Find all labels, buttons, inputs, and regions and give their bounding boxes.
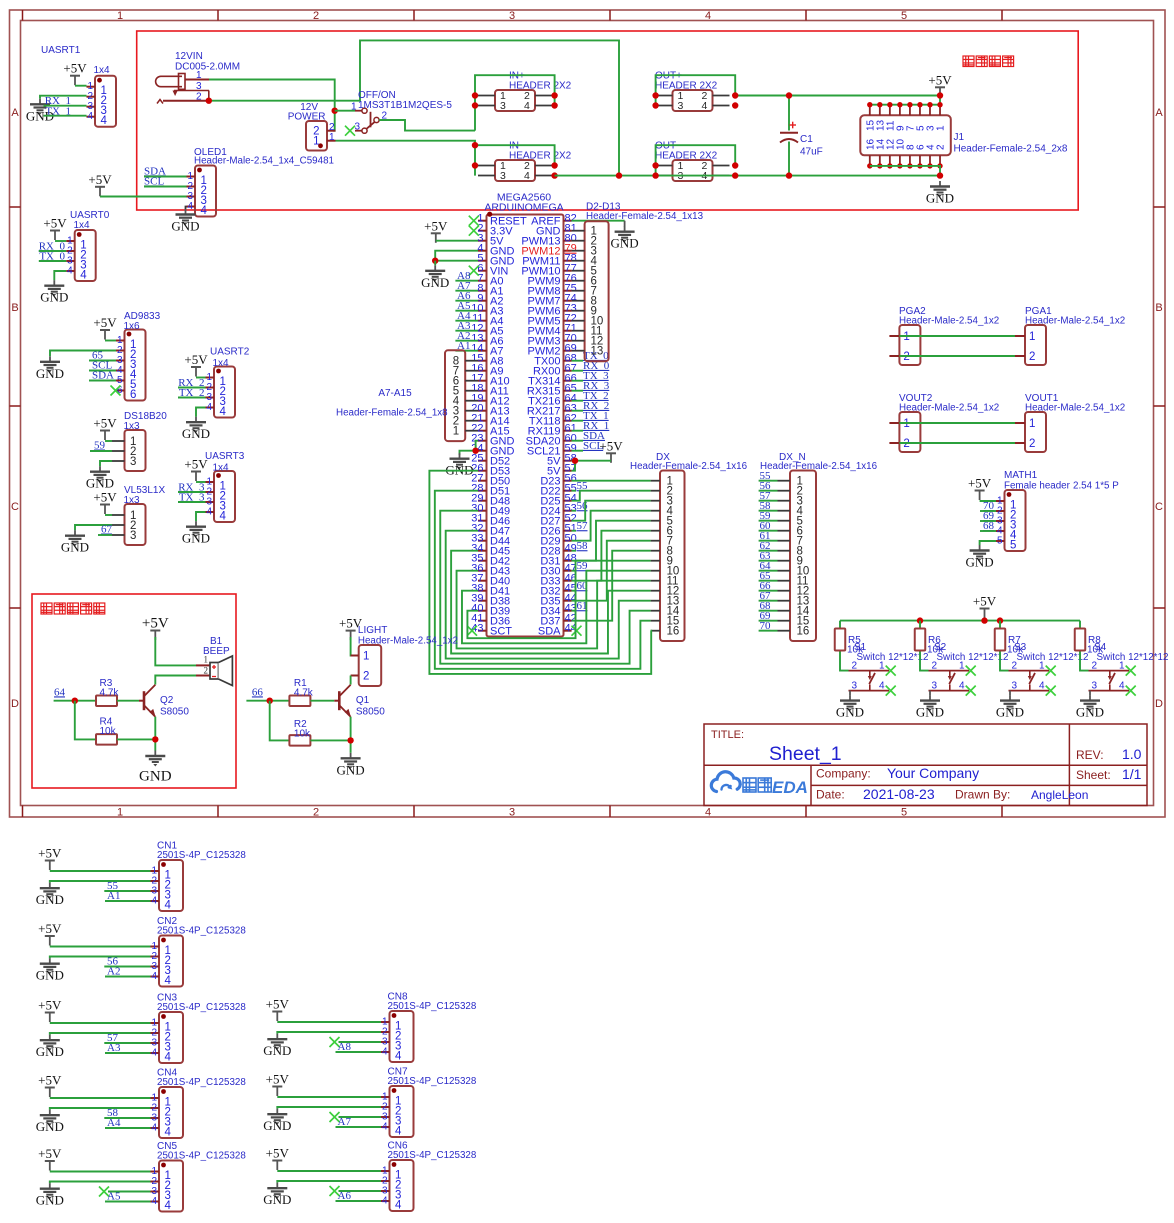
wire net A1 stub <box>455 350 478 352</box>
capacitor C1 47uF <box>780 96 798 176</box>
svg-text:GND: GND <box>263 1043 291 1058</box>
svg-text:2: 2 <box>196 92 202 103</box>
ground (CN3) <box>36 1035 64 1060</box>
wire net 62 to DX_N pin8 <box>759 550 778 552</box>
svg-text:5: 5 <box>997 536 1003 547</box>
wire +5V to CN8 pin1 <box>277 1021 381 1023</box>
wire 59 to DS18B20 pin2 <box>90 450 112 452</box>
connector UASRT2 1x4 <box>206 367 236 419</box>
wire CN7 pin3 stub <box>339 1116 382 1118</box>
svg-text:GND: GND <box>40 290 68 305</box>
svg-text:TITLE:: TITLE: <box>711 729 744 741</box>
svg-text:2501S-4P_C125328: 2501S-4P_C125328 <box>157 1151 246 1162</box>
wire D2x staircase to DX2 <box>572 491 651 501</box>
svg-text:Header-Male-2.54_1x2: Header-Male-2.54_1x2 <box>358 636 458 647</box>
svg-text:1: 1 <box>117 10 123 22</box>
junction base node (buzzer) <box>72 698 78 704</box>
svg-text:Header-Female-2.54_1x16: Header-Female-2.54_1x16 <box>760 461 878 472</box>
wire A1 to CN1 pin4 <box>105 900 151 902</box>
+5V flag (VL53L1X) <box>93 490 117 515</box>
wire MATH1 pin5 to GND <box>980 541 996 545</box>
svg-text:Drawn By:: Drawn By: <box>955 788 1010 802</box>
switch S4 body <box>1089 671 1130 691</box>
wire net 56 stub <box>572 510 576 512</box>
svg-text:2: 2 <box>313 807 319 819</box>
wire SCL to AD9833 pin4 <box>89 370 116 372</box>
wire MEGA pins23-24 to GND <box>476 441 478 451</box>
svg-text:1: 1 <box>903 418 909 430</box>
wire D5x wrap-around to DX14 <box>440 511 650 664</box>
svg-text:Date:: Date: <box>816 788 845 802</box>
connector DX_N Header-Female-2.54 1x16 <box>778 471 817 642</box>
svg-text:4: 4 <box>151 896 157 907</box>
ground (MEGA pins4-5) <box>421 265 449 290</box>
svg-text:4.7k: 4.7k <box>294 688 314 699</box>
MCU U? MEGA2560 ARDUINOMEGA body <box>478 215 572 637</box>
svg-text:+5V: +5V <box>93 416 117 431</box>
ground (MEGA pins23-24) <box>445 453 473 478</box>
no-connect X S1 pin1 <box>886 666 896 676</box>
junction OUT- pin2 <box>732 162 738 168</box>
wire +5V to CN7 pin1 <box>277 1096 381 1098</box>
svg-text:POWER: POWER <box>288 112 326 123</box>
svg-text:4: 4 <box>206 507 212 518</box>
junction C1 top <box>786 92 792 98</box>
wire net A8 stub <box>455 280 478 282</box>
wire net RX_1 stub <box>572 430 583 432</box>
wire RX_2 to UASRT2 pin2 <box>178 387 206 389</box>
svg-text:1: 1 <box>117 807 123 819</box>
label 蜂鸣器电路 <box>41 603 105 614</box>
wire net 67 to DX_N pin13 <box>759 600 778 602</box>
no-connect X CN7 pin3 <box>330 1112 340 1122</box>
svg-text:A: A <box>11 107 19 119</box>
connector CN5 2501S-4P_C125328 <box>151 1161 184 1213</box>
svg-text:4: 4 <box>395 1051 402 1063</box>
connector CN7 2501S-4P_C125328 <box>381 1086 414 1138</box>
+5V flag (CN4) <box>38 1073 62 1098</box>
wire +5V to UASRT3 pin1 <box>196 481 206 483</box>
ground (CN6) <box>263 1183 291 1208</box>
resistor R8 10k <box>1075 629 1086 651</box>
ground (OLED1) <box>171 209 199 234</box>
svg-text:4: 4 <box>524 170 530 182</box>
wire UASRT1 pin 2 to GND <box>40 96 87 99</box>
junction IN+ pin4 <box>551 102 557 108</box>
svg-text:1: 1 <box>936 125 947 131</box>
wire CN7 pin2 to GND <box>277 1107 381 1109</box>
svg-text:59: 59 <box>94 440 106 452</box>
wire 66 to R1 <box>246 700 289 702</box>
title block <box>704 724 1147 806</box>
svg-text:Header-Female-2.54_2x8: Header-Female-2.54_2x8 <box>954 144 1068 155</box>
svg-text:2: 2 <box>851 661 857 672</box>
svg-text:D: D <box>1155 698 1163 710</box>
svg-text:Header-Male-2.54_1x2: Header-Male-2.54_1x2 <box>1025 316 1125 327</box>
ground (CN2) <box>36 958 64 983</box>
svg-text:3: 3 <box>500 170 506 182</box>
svg-text:2501S-4P_C125328: 2501S-4P_C125328 <box>388 1150 477 1161</box>
+5V flag (key rail) <box>973 594 997 619</box>
svg-text:4: 4 <box>705 807 711 819</box>
connector CN3 2501S-4P_C125328 <box>151 1012 184 1064</box>
wire divider down (LIGHT) <box>270 701 290 741</box>
junction IN- pin4 <box>551 172 557 178</box>
connector MATH1 Female header 1x5 <box>996 490 1026 552</box>
svg-text:2501S-4P_C125328: 2501S-4P_C125328 <box>157 1077 246 1088</box>
DC jack 12VIN DC005-2.0MM <box>156 74 209 104</box>
wire VL53L1X pin2 to GND <box>75 525 112 530</box>
wire net 58 stub <box>572 550 576 552</box>
ground (VL53L1X) <box>61 530 89 555</box>
junction rail at x619 <box>616 172 622 178</box>
wire +5V key rail <box>984 618 986 621</box>
ground (AREF) <box>611 226 639 251</box>
wire net 59 to DX_N pin5 <box>759 520 778 522</box>
svg-text:GND: GND <box>36 366 64 381</box>
wire D5x wrap-around to DX12 <box>451 551 650 654</box>
svg-text:1: 1 <box>959 661 965 672</box>
wire D5x wrap-around to DX9 <box>467 561 650 639</box>
svg-text:3: 3 <box>931 681 937 692</box>
svg-text:Header-Male-2.54_1x2: Header-Male-2.54_1x2 <box>899 316 999 327</box>
wire 56 to CN2 pin3 <box>104 966 150 968</box>
svg-text:Header-Female-2.54_1x16: Header-Female-2.54_1x16 <box>630 461 748 472</box>
header OUT+ HEADER 2X2 <box>656 90 730 112</box>
+5V flag (CN6) <box>266 1146 290 1171</box>
svg-text:4: 4 <box>1039 681 1045 692</box>
svg-text:GND: GND <box>36 892 64 907</box>
svg-text:S8050: S8050 <box>356 707 385 718</box>
svg-text:1x4: 1x4 <box>94 65 111 76</box>
svg-text:4: 4 <box>1119 681 1125 692</box>
pin numbers MATH1 outside <box>997 496 1003 547</box>
wire +5V to MATH1 pin1 <box>980 500 996 502</box>
pin numbers UASRT0 outside <box>67 236 73 277</box>
pin numbers CN4 outside <box>151 1093 157 1134</box>
svg-text:Switch 12*12*12: Switch 12*12*12 <box>857 652 929 663</box>
svg-text:GND: GND <box>36 1044 64 1059</box>
wire +5V to UASRT2 pin1 <box>196 377 206 379</box>
svg-text:2: 2 <box>313 10 319 22</box>
wire RX_1 to UASRT1 pin 3 <box>44 105 87 107</box>
svg-text:4: 4 <box>395 1126 402 1138</box>
svg-text:3: 3 <box>500 100 506 112</box>
svg-text:Sheet_1: Sheet_1 <box>769 743 842 765</box>
wire net 70 to DX_N pin16 <box>759 630 778 632</box>
wire net 57 stub <box>572 530 576 532</box>
wire +5V to UASRT1 pin 1 <box>75 85 87 87</box>
svg-text:+5V: +5V <box>38 998 62 1013</box>
no-connect X S2 pin1 <box>966 666 976 676</box>
connector CN8 2501S-4P_C125328 <box>381 1011 414 1063</box>
svg-text:4: 4 <box>382 1122 388 1133</box>
svg-text:2501S-4P_C125328: 2501S-4P_C125328 <box>157 850 246 861</box>
svg-text:REV:: REV: <box>1076 748 1104 762</box>
svg-text:HEADER 2X2: HEADER 2X2 <box>509 151 572 162</box>
svg-text:MATH1: MATH1 <box>1004 470 1038 481</box>
+5V flag (CN5) <box>38 1146 62 1171</box>
wire net A2 stub <box>455 340 478 342</box>
svg-text:1: 1 <box>1029 331 1035 343</box>
wire MEGA pins4-5 to GND <box>435 251 478 261</box>
wire D23 to DX1 <box>572 480 651 482</box>
svg-text:64: 64 <box>54 686 66 698</box>
wire D2x staircase to DX8 <box>572 551 651 621</box>
resistor R6 10k <box>915 629 926 651</box>
no-connect X AD9833 pin6 <box>111 386 121 396</box>
connector CN1 2501S-4P_C125328 <box>151 860 184 912</box>
ground (UASRT3) <box>182 521 210 546</box>
sheet border frame <box>10 10 1166 819</box>
svg-text:GND: GND <box>36 968 64 983</box>
svg-text:1: 1 <box>196 70 202 81</box>
wire CN2 pin2 to GND <box>50 957 151 959</box>
svg-text:+5V: +5V <box>38 921 62 936</box>
ground (CN8) <box>263 1034 291 1059</box>
svg-text:2021-08-23: 2021-08-23 <box>863 786 935 802</box>
wire net 58 to DX_N pin4 <box>759 510 778 512</box>
wire net 61 to DX_N pin7 <box>759 540 778 542</box>
svg-text:DC005-2.0MM: DC005-2.0MM <box>175 62 240 73</box>
ground (UASRT0) <box>40 280 68 305</box>
svg-text:Sheet:: Sheet: <box>1076 768 1111 782</box>
wire D5x wrap-around to DX13 <box>446 531 651 659</box>
svg-text:3: 3 <box>130 530 136 542</box>
connector UASRT3 1x4 <box>206 471 236 523</box>
wire A3 to CN3 pin4 <box>105 1052 151 1054</box>
no-connect X CN6 pin3 <box>330 1186 340 1196</box>
ground (LIGHT) <box>337 753 365 778</box>
junction C1 bottom <box>786 172 792 178</box>
+5V flag (MATH1) <box>968 476 992 501</box>
pin numbers and labels MEGA2560 left <box>471 213 527 638</box>
svg-text:GND: GND <box>139 769 172 785</box>
svg-text:GND: GND <box>926 191 954 206</box>
wire RX_3 to UASRT3 pin2 <box>178 491 206 493</box>
svg-text:4: 4 <box>702 100 708 112</box>
wire TX_1 to UASRT1 pin 4 <box>44 115 87 117</box>
junction IN- pin1 <box>472 162 478 168</box>
svg-text:4: 4 <box>165 1200 172 1212</box>
wire net 60 to DX_N pin6 <box>759 530 778 532</box>
connector PGA1 Header-Male-2.54_1x2 <box>1015 325 1046 365</box>
svg-text:10k: 10k <box>100 726 117 737</box>
+5V flag (J1) <box>928 72 952 97</box>
junction emitter node (LIGHT) <box>347 737 353 743</box>
svg-text:+5V: +5V <box>93 490 117 505</box>
wire DS18B20 pin3 to GND <box>100 461 112 466</box>
svg-text:2: 2 <box>903 351 909 363</box>
svg-text:2501S-4P_C125328: 2501S-4P_C125328 <box>157 1002 246 1013</box>
wire A7 to CN7 pin4 <box>336 1126 382 1128</box>
svg-text:GND: GND <box>61 540 89 555</box>
connector A7-A15 Header-Female-2.54 1x8 <box>445 350 478 441</box>
svg-text:+5V: +5V <box>38 1146 62 1161</box>
svg-text:1x3: 1x3 <box>124 421 141 432</box>
pin numbers UASRT1 outside <box>87 81 93 122</box>
no-connect X MEGA pin2 <box>469 226 479 236</box>
logo LCEDA cloud <box>711 772 740 792</box>
buzzer-section box 蜂鸣器电路 <box>32 594 236 788</box>
wire net 57 to DX_N pin3 <box>759 500 778 502</box>
svg-text:16: 16 <box>797 626 810 638</box>
svg-text:A: A <box>1155 107 1163 119</box>
wire S4 pin3 to GND <box>1089 691 1091 696</box>
svg-text:D: D <box>11 698 19 710</box>
wire R4 to emitter node <box>117 738 155 740</box>
wire CN6 pin2 to GND <box>277 1181 381 1183</box>
svg-text:GND: GND <box>182 426 210 441</box>
svg-text:+5V: +5V <box>184 457 208 472</box>
junction OUT- pin3 <box>652 172 658 178</box>
connector D2-D13 Header-Female-2.54 1x13 <box>572 221 609 361</box>
wire net A4 stub <box>455 320 478 322</box>
svg-text:1: 1 <box>1029 418 1035 430</box>
wire SCL to OLED1 pin2 <box>144 186 187 188</box>
label 电源电路 <box>963 56 1014 67</box>
ground (buzzer) <box>139 751 172 785</box>
svg-text:2: 2 <box>1011 661 1017 672</box>
wire CN8 pin2 to GND <box>277 1032 381 1034</box>
pin numbers UASRT2 outside <box>206 372 212 413</box>
svg-text:3: 3 <box>130 456 136 468</box>
wire 67 to VL53L1X pin3 <box>98 534 112 536</box>
wire 58 to CN4 pin3 <box>104 1117 150 1119</box>
svg-text:+5V: +5V <box>142 616 169 632</box>
wire R5 leads <box>840 621 849 671</box>
pin numbers CN5 outside <box>151 1166 157 1207</box>
no-connect X MEGA pin44 SDA <box>572 626 582 636</box>
wire net A6 stub <box>455 300 478 302</box>
wire MEGA GND stem <box>434 261 436 266</box>
header IN- HEADER 2X2 <box>478 160 552 182</box>
wire net RX_3 stub <box>572 390 583 392</box>
wire +5V to LIGHT pin1 <box>351 637 359 656</box>
svg-text:GND: GND <box>36 1193 64 1208</box>
wire A5 to CN5 pin4 <box>105 1201 151 1203</box>
svg-text:SDA: SDA <box>538 626 561 638</box>
svg-text:6: 6 <box>130 389 136 401</box>
wire D2x staircase to DX6 <box>572 531 651 581</box>
svg-text:4: 4 <box>151 971 157 982</box>
connector J1 Header-Female-2.54 2x8 <box>860 102 951 169</box>
svg-text:GND: GND <box>337 762 365 777</box>
wire D5x wrap-around to DX15 <box>435 491 651 669</box>
svg-text:Company:: Company: <box>816 767 871 781</box>
wire A4 to CN4 pin4 <box>105 1127 151 1129</box>
svg-text:2: 2 <box>363 671 369 683</box>
svg-text:1: 1 <box>351 102 357 113</box>
no-connect X S1 pin4 <box>886 686 896 696</box>
wire net A7 stub <box>455 290 478 292</box>
wire PGA2 pin1 to PGA1 pin1 <box>899 335 1015 337</box>
ground (MATH1) <box>966 545 994 570</box>
svg-text:2: 2 <box>1029 438 1035 450</box>
ground (CN5) <box>36 1183 64 1208</box>
wire R3 to Q2 base <box>117 700 139 702</box>
connector CN4 2501S-4P_C125328 <box>151 1087 184 1139</box>
svg-text:C: C <box>1155 501 1163 513</box>
svg-text:C: C <box>11 501 19 513</box>
svg-text:GND: GND <box>966 555 994 570</box>
junction emitter node (buzzer) <box>152 736 158 742</box>
wire CN4 pin2 to GND <box>50 1108 151 1110</box>
svg-text:1x4: 1x4 <box>74 220 91 231</box>
connector UASRT1 1x4 <box>87 76 117 128</box>
wire R6 leads <box>920 621 929 671</box>
pin numbers CN3 outside <box>151 1018 157 1059</box>
resistor R5 10k <box>835 629 846 651</box>
junction 12V node <box>332 108 338 114</box>
svg-text:2501S-4P_C125328: 2501S-4P_C125328 <box>157 926 246 937</box>
header OUT- HEADER 2X2 <box>656 160 730 182</box>
+5V flag (UASRT2) <box>184 352 208 377</box>
junction IN- pin2 <box>551 162 557 168</box>
+5V flag (OLED1) <box>88 172 112 197</box>
wire TX_3 to UASRT3 pin3 <box>178 501 206 503</box>
+5V flag (CN3) <box>38 998 62 1023</box>
junction OUT- pin1 <box>652 162 658 168</box>
svg-text:12VIN: 12VIN <box>175 51 203 62</box>
svg-text:4: 4 <box>382 1196 388 1207</box>
no-connect X switch pin 3 <box>345 126 355 136</box>
svg-text:HEADER 2X2: HEADER 2X2 <box>655 151 718 162</box>
svg-text:+5V: +5V <box>424 218 448 233</box>
svg-text:4: 4 <box>879 681 885 692</box>
svg-text:1x6: 1x6 <box>124 321 141 332</box>
wire 12VIN pin1 to switch (12V) <box>209 80 335 131</box>
wire +5V to CN6 pin1 <box>277 1170 381 1172</box>
svg-text:ARDUINOMEGA: ARDUINOMEGA <box>484 202 563 214</box>
switch S3 body <box>1009 671 1050 691</box>
svg-text:56: 56 <box>577 500 589 512</box>
wire OUT+ to +5V rail <box>735 95 940 97</box>
junction MEGA 5V <box>572 458 578 464</box>
switch OFF/ON MS3T1B1M2QES-5 <box>355 108 379 133</box>
svg-text:4: 4 <box>959 681 965 692</box>
svg-text:C1: C1 <box>800 134 813 145</box>
svg-text:Switch 12*12*12: Switch 12*12*12 <box>1017 652 1089 663</box>
svg-text:67: 67 <box>101 524 113 536</box>
wire +5V to DS18B20 pin1 <box>105 440 112 442</box>
svg-text:A7-A15: A7-A15 <box>378 388 412 399</box>
svg-text:Q2: Q2 <box>160 695 174 706</box>
svg-text:4: 4 <box>705 10 711 22</box>
ground (CN1) <box>36 883 64 908</box>
wire net SDA stub <box>572 440 583 442</box>
svg-text:+5V: +5V <box>266 1072 290 1087</box>
+5V flag (MEGA pin3) <box>424 218 448 243</box>
junction OUT+ pin3 <box>652 102 658 108</box>
svg-text:3: 3 <box>1091 681 1097 692</box>
svg-text:3: 3 <box>1011 681 1017 692</box>
connector VOUT1 Header-Male-2.54_1x2 <box>1015 412 1046 452</box>
svg-text:2: 2 <box>1029 351 1035 363</box>
ground (S1) <box>836 695 864 720</box>
connector CN2 2501S-4P_C125328 <box>151 936 184 988</box>
svg-text:4: 4 <box>382 1047 388 1058</box>
svg-text:GND: GND <box>1076 705 1104 720</box>
pin numbers CN6 outside <box>382 1166 388 1207</box>
svg-text:16: 16 <box>667 626 680 638</box>
junction MEGA GND pins23-24 <box>472 448 478 454</box>
svg-text:4: 4 <box>101 115 108 127</box>
connector DS18B20 1x3 <box>112 430 146 471</box>
svg-text:+5V: +5V <box>599 438 623 453</box>
wire CN5 pin2 to GND <box>50 1182 151 1184</box>
wire A8 to CN8 pin4 <box>336 1051 382 1053</box>
